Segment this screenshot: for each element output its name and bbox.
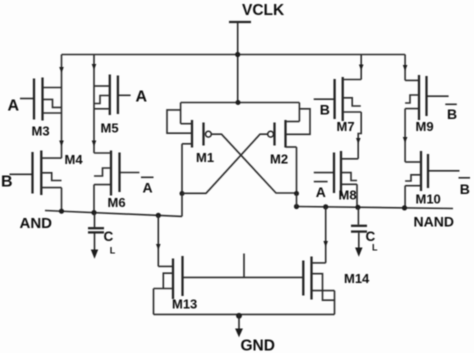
svg-text:B: B: [460, 181, 470, 197]
junction NAND/M8: [355, 205, 360, 210]
wire M4 source to AND node: [61, 188, 63, 212]
transistor M2: [268, 103, 310, 167]
transistor M10: [405, 151, 459, 207]
wire M1 drain to AND: [181, 194, 183, 217]
svg-text:NAND: NAND: [414, 214, 454, 230]
capacitor CL (left): [88, 213, 116, 259]
arrowhead on M14 drain wire: [323, 241, 328, 247]
junction AND/M4: [59, 209, 64, 214]
svg-text:M7: M7: [337, 119, 355, 134]
top supply rail: [62, 54, 406, 56]
svg-text:A: A: [8, 98, 20, 115]
junction NAND/M10: [402, 205, 407, 210]
capacitor CL (right): [351, 207, 378, 256]
svg-text:M8: M8: [339, 188, 357, 203]
transistor M9: [405, 75, 449, 134]
svg-text:B: B: [320, 102, 330, 118]
junction NAND/M14: [323, 204, 328, 209]
input label A-bar (M6): [141, 177, 154, 195]
arrowhead on M3 drain wire: [59, 67, 64, 73]
svg-text:M2: M2: [270, 152, 288, 167]
wire M6 source to AND node: [93, 185, 95, 213]
wire rail to M9 drain: [404, 55, 406, 81]
svg-text:L: L: [372, 243, 378, 253]
VCLK terminal bar: [229, 21, 251, 23]
wire M7 source to M8 drain: [358, 112, 361, 159]
wire M1 drain down: [181, 144, 183, 194]
svg-text:L: L: [110, 246, 116, 256]
arrowhead on M9 drain wire: [403, 65, 408, 71]
wire M2 gate to M1 drain (cross): [182, 134, 268, 193]
node M1 drain: [180, 191, 185, 196]
wire M10 source to NAND node: [404, 186, 406, 208]
input label B-bar (M10): [459, 178, 471, 197]
arrowhead on M5 drain wire: [92, 64, 97, 70]
wire AND to M13 drain: [157, 215, 159, 266]
transistor M1: [167, 103, 214, 166]
wire M2 drain down: [296, 147, 298, 194]
wire M14 source to ground rail: [334, 291, 336, 315]
transistor M5: [94, 75, 131, 136]
arrowhead on M9-M10 wire: [403, 137, 408, 143]
svg-text:AND: AND: [20, 215, 53, 232]
wire M5 source to M6 drain: [93, 86, 95, 153]
svg-text:M5: M5: [101, 121, 119, 136]
cross-coupled pair source rail: [181, 102, 300, 104]
wire NAND to M14 drain: [325, 207, 327, 263]
net AND output line: [45, 211, 182, 217]
svg-text:C: C: [104, 229, 114, 244]
svg-text:M10: M10: [416, 192, 441, 207]
wire M3 source to M4 drain: [61, 88, 63, 159]
svg-text:B: B: [1, 174, 13, 191]
wire gate stub (clock input): [243, 254, 245, 278]
arrowhead on M13 drain wire: [156, 244, 161, 250]
transistor M8: [314, 151, 358, 203]
svg-text:B: B: [447, 106, 457, 122]
junction NAND/M2: [294, 204, 299, 209]
junction AND/M6: [91, 210, 96, 215]
svg-text:M13: M13: [172, 297, 197, 312]
wire M13 gate to M14 gate: [183, 276, 304, 278]
junction ground rail/GND: [236, 313, 242, 319]
arrowhead on M5-M6 wire: [92, 141, 97, 147]
wire rail to M5 drain: [93, 55, 95, 87]
input label A-bar (M8): [314, 182, 328, 200]
transistor M4: [10, 151, 84, 196]
junction AND/M13: [156, 213, 161, 218]
svg-text:M4: M4: [65, 152, 84, 167]
svg-text:A: A: [136, 89, 148, 106]
svg-text:M6: M6: [108, 195, 126, 210]
svg-text:A: A: [316, 184, 326, 200]
svg-text:M3: M3: [32, 124, 50, 139]
svg-text:M9: M9: [416, 119, 434, 134]
wire rail to M7 drain: [360, 55, 362, 80]
svg-text:M1: M1: [196, 150, 214, 165]
ground rail: [154, 313, 335, 315]
svg-text:M14: M14: [344, 271, 370, 286]
junction VCLK/source rail: [236, 100, 241, 105]
wire M9 source to M10 drain: [404, 109, 406, 162]
transistor M7: [314, 77, 362, 134]
wire M2 drain to NAND: [296, 194, 298, 207]
wire M1 gate to M2 drain (cross): [211, 134, 296, 193]
ground GND symbol: [235, 314, 275, 353]
svg-text:A: A: [143, 180, 153, 196]
arrowhead on M7-M8 wire: [356, 138, 361, 144]
transistor M13: [154, 256, 198, 312]
net NAND output line: [297, 207, 454, 209]
arrowhead on M3-M4 wire: [59, 141, 64, 147]
svg-text:VCLK: VCLK: [242, 2, 285, 19]
junction rail/VCLK: [235, 52, 240, 57]
input label B-bar (M9): [445, 104, 457, 122]
transistor M6: [94, 151, 139, 211]
wire M13 source to ground rail: [153, 289, 155, 315]
node M2 drain: [294, 191, 299, 196]
transistor M3: [20, 78, 62, 139]
wire M8 source to NAND node: [356, 184, 358, 207]
wire rail to M3 drain: [61, 55, 63, 88]
wire VCLK vertical: [237, 22, 239, 103]
svg-text:GND: GND: [241, 338, 275, 353]
transistor M14: [303, 257, 370, 301]
arrowhead on M7 drain wire: [359, 65, 364, 71]
